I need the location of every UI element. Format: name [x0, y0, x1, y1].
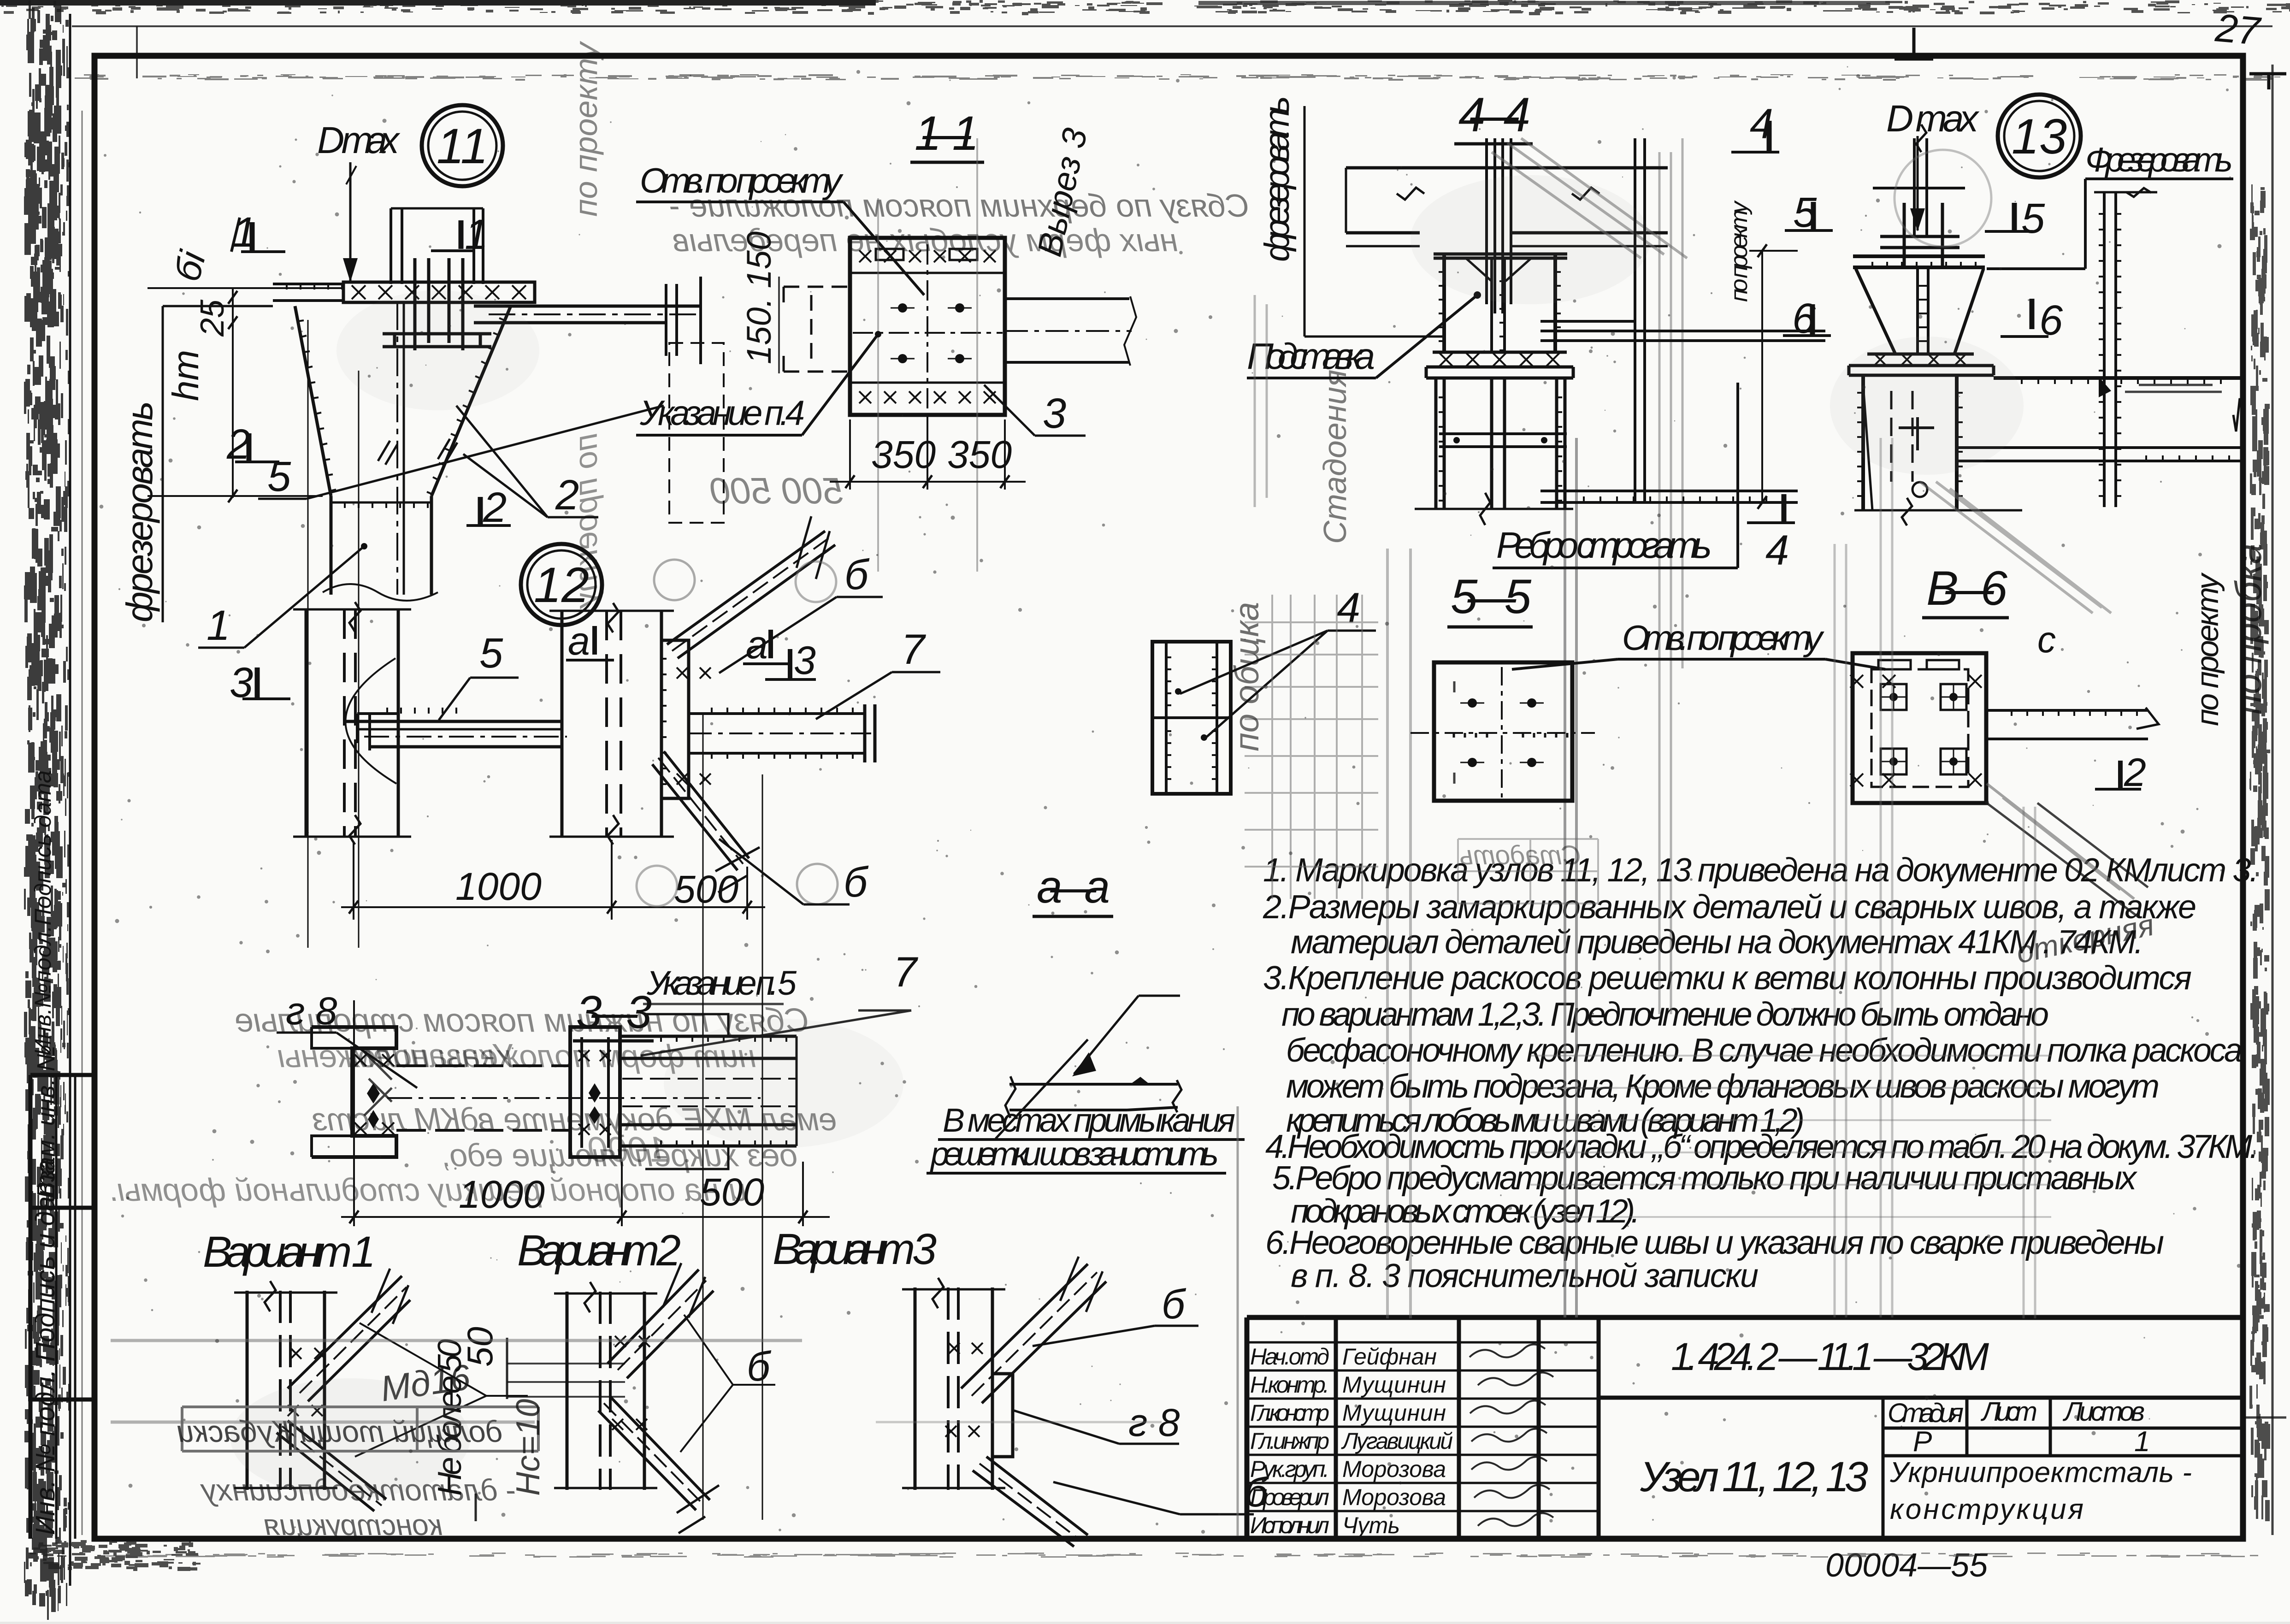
svg-text:350: 350 — [947, 433, 1012, 476]
a-a weld arrow — [1074, 996, 1139, 1074]
scan noise: top edge band — [1, 0, 2290, 15]
svg-text:а: а — [568, 619, 590, 663]
title block right outside tick — [2243, 1417, 2286, 1419]
svg-text:Указанием: Указанием — [351, 1038, 517, 1075]
outer border corner stub — [136, 26, 138, 78]
svg-text:Морозова: Морозова — [1342, 1484, 1446, 1510]
svg-text:00004—55: 00004—55 — [1825, 1547, 1988, 1584]
ghost circles node 12 — [654, 560, 695, 600]
svg-text:2: 2 — [2124, 750, 2146, 795]
node 11: beam end column — [666, 277, 701, 364]
ghost vertical streaks top-middle — [1255, 295, 1267, 507]
variant 2 sketch: leader to b — [680, 1315, 775, 1452]
section B-6: bolts with washers — [1881, 684, 1906, 710]
left margin thin vertical line — [69, 14, 71, 1586]
variant 3 sketch: weld marks — [945, 1343, 983, 1437]
svg-text:б: б — [1162, 1281, 1186, 1328]
node 13: ghost diagonal below — [1920, 482, 2111, 613]
section B-6: inner plate dashed — [1871, 669, 1968, 787]
svg-text:7: 7 — [893, 949, 918, 996]
svg-text:с: с — [2037, 619, 2056, 660]
node 12: lower diagonal brace — [652, 751, 749, 870]
D max arrow — [349, 162, 352, 281]
section mark 2 left — [247, 433, 252, 461]
ghost mirror: 3-3 under line 1 — [312, 1101, 837, 1137]
weld fill — [1130, 1077, 1150, 1084]
ghost arc near circle 13 — [1895, 150, 1991, 247]
ghost vertical extension line center-bottom — [1237, 1106, 1239, 1536]
svg-text:13: 13 — [2012, 108, 2067, 164]
view 4-4: beam to node 13 upper — [1540, 321, 1825, 341]
svg-text:150. 150: 150. 150 — [740, 231, 778, 364]
svg-text:по вариантам 1,2,3. Предпочтен: по вариантам 1,2,3. Предпочтение должно … — [1281, 996, 2049, 1033]
svg-text:конструкция: конструкция — [264, 1508, 443, 1541]
section mark 2 right — [478, 497, 483, 525]
svg-text:1. 424. 2 — 11.1 —32КМ: 1. 424. 2 — 11.1 —32КМ — [1671, 1335, 1989, 1378]
svg-text:1: 1 — [2134, 1426, 2150, 1458]
section 1-1: bracket shapes top — [876, 249, 977, 260]
section mark 4 top (view 4-4) — [1767, 121, 1772, 151]
section 1-1: bolts — [898, 303, 907, 313]
svg-text:Инв. № подл. Подпись и дата: Инв. № подл. Подпись и дата — [30, 1159, 60, 1535]
title block outer box — [1247, 1317, 2243, 1539]
svg-text:6: 6 — [2039, 297, 2063, 344]
svg-text:фрезеровать: фрезеровать — [1257, 96, 1297, 262]
node 11: dashed lower outline — [669, 343, 724, 523]
notes text block — [1263, 852, 2259, 1294]
svg-text:В местах примыкания: В местах примыкания — [943, 1102, 1235, 1139]
section 3-3: left channel — [312, 1027, 396, 1157]
ghost mirror: 1000 dim — [588, 1129, 668, 1169]
svg-text:5: 5 — [1793, 189, 1817, 236]
section 3-3: connecting beam dashes — [396, 1066, 570, 1130]
variant 1 sketch: leader lines — [355, 1323, 528, 1457]
scan noise: right streak band — [2249, 184, 2270, 1521]
svg-text:может быть подрезана, Кроме: может быть подрезана, Кроме фланговых шв… — [1286, 1068, 2160, 1105]
view 4-4: bearing plate hatched — [1433, 352, 1567, 367]
section B-6: cut mark 2 — [2118, 761, 2123, 788]
title block signature rows — [1250, 1344, 1453, 1538]
node 11 dimension lines left — [148, 288, 341, 498]
section mark 1 right of node 11 — [459, 220, 464, 249]
variant 3 sketch: upper diagonal — [961, 1264, 1106, 1403]
node 13: upper column stub — [1873, 138, 1965, 236]
svg-text:Исполнил: Исполнил — [1250, 1512, 1329, 1538]
svg-text:Вариант 1: Вариант 1 — [203, 1228, 376, 1276]
svg-text:Отв. по проекту: Отв. по проекту — [1622, 619, 1824, 658]
svg-text:Гейфнан: Гейфнан — [1342, 1344, 1437, 1370]
svg-text:Стадоения: Стадоения — [1317, 370, 1353, 544]
svg-text:1: 1 — [233, 209, 256, 256]
node 11: column break — [323, 584, 438, 601]
svg-text:Нач.отд: Нач.отд — [1250, 1344, 1329, 1370]
view 4-4: leg stiffener — [1439, 434, 1567, 447]
node 13: right rib wall — [2104, 192, 2116, 507]
view 4-4: right tall column — [1635, 138, 1645, 502]
svg-text:Фрезеровать: Фрезеровать — [2085, 141, 2233, 179]
svg-text:Мущинин: Мущинин — [1342, 1400, 1446, 1426]
svg-text:по общка: по общка — [1228, 602, 1266, 751]
svg-text:6.Неоговоренные сварные швы: 6.Неоговоренные сварные швы и указания п… — [1265, 1224, 2164, 1261]
node 13: beam to right — [1994, 376, 2241, 380]
title block doc number box — [1599, 1396, 2243, 1400]
svg-text:по пробка: по пробка — [2228, 543, 2269, 715]
svg-text:Лист: Лист — [1980, 1397, 2037, 1427]
svg-text:D max: D max — [317, 119, 401, 161]
outer thin border line right — [2272, 65, 2274, 1535]
svg-text:Нс=10: Нс=10 — [510, 1399, 547, 1496]
ghost mirror dim 500 500 — [710, 470, 844, 511]
node 11: washer plate — [383, 334, 491, 347]
node 12: left column — [306, 609, 398, 837]
svg-text:7: 7 — [901, 626, 926, 673]
svg-text:Ребро строгать: Ребро строгать — [1496, 525, 1712, 566]
svg-text:по проекту: по проекту — [1726, 200, 1753, 302]
a-a weld detail plates — [1009, 1084, 1178, 1110]
node 11: beam going right — [474, 306, 701, 323]
node 13: tapered head — [1856, 269, 1983, 354]
section 1-1: center dashes — [927, 244, 928, 410]
svg-text:Инв.№подл.Подпись дата: Инв.№подл.Подпись дата — [30, 770, 56, 1056]
ghost mirror: ukazanie — [351, 1038, 517, 1075]
svg-text:5: 5 — [2021, 195, 2045, 242]
svg-text:по проекту: по проекту — [568, 41, 604, 217]
variant 3 sketch: gusset plate — [992, 1374, 1013, 1457]
variant 1 sketch: weld X marks — [288, 1348, 325, 1416]
svg-text:бесфасоночному креплению. В с: бесфасоночному креплению. В случае необх… — [1286, 1032, 2243, 1069]
section 1-1: ghost mirror text line1 — [669, 188, 1249, 224]
svg-text:500 500: 500 500 — [710, 470, 844, 511]
svg-text:5.Ребро предусматривается тол: 5.Ребро предусматривается только при нал… — [1272, 1160, 2138, 1197]
ghost smudge blobs — [1830, 337, 2024, 475]
title block columns left part — [1336, 1317, 1599, 1539]
variant 3 sketch: lower diagonal — [973, 1457, 1088, 1547]
svg-text:решетки шов зачистить: решетки шов зачистить — [930, 1136, 1219, 1173]
node 12: beam left bracket — [357, 714, 398, 750]
node 11: upper column stub — [391, 208, 483, 284]
node 11: bolt studs — [415, 258, 463, 350]
svg-text:4—4: 4—4 — [1458, 88, 1530, 142]
section mark 6 left — [1810, 304, 1815, 335]
svg-text:1—1: 1—1 — [915, 106, 979, 160]
svg-text:3: 3 — [230, 659, 253, 706]
scan noise: horizontal streak line — [75, 74, 2280, 81]
view 4-4: ghost diagonals — [1492, 138, 1687, 258]
svg-text:Н.контр.: Н.контр. — [1250, 1372, 1329, 1398]
svg-text:1: 1 — [207, 602, 230, 649]
node 11: tapered head — [295, 306, 511, 496]
svg-text:Листов: Листов — [2062, 1397, 2145, 1427]
section 1-1: ghost mirror text line2 — [673, 222, 1178, 258]
ghost rotated text 2 — [568, 433, 604, 609]
node 12: beam to the right with combs — [689, 714, 865, 753]
svg-text:б: б — [844, 551, 870, 598]
svg-text:500: 500 — [674, 868, 738, 911]
title block stage header box — [1883, 1398, 2243, 1539]
svg-text:Вариант 2: Вариант 2 — [517, 1226, 681, 1275]
section B-6: diagonal brace ghost — [1987, 784, 2134, 899]
svg-text:4: 4 — [1750, 100, 1773, 148]
scan noise: bottom thin line — [106, 1553, 2258, 1558]
variant 1 sketch: upper diagonal — [288, 1276, 410, 1401]
svg-text:В —6: В —6 — [1926, 561, 2008, 615]
node 13: top plate — [1853, 256, 1985, 267]
svg-text:11: 11 — [437, 118, 488, 174]
section 1-1: left channel dashes — [784, 287, 850, 372]
svg-text:Узел 11, 12, 13: Узел 11, 12, 13 — [1640, 1453, 1868, 1500]
section 1-1: top X strip — [850, 273, 1005, 383]
section mark 5 left — [1811, 202, 1816, 230]
section mark 1 left of node 11 — [250, 222, 255, 251]
section B-6: plate — [1853, 653, 1986, 803]
svg-text:hт: hт — [165, 350, 206, 401]
node 12: beam between columns — [343, 721, 562, 747]
section 5-5: plate — [1434, 662, 1572, 801]
outer thin border line top — [72, 25, 2272, 27]
ghost mirror: 3-3 area line 2 — [277, 1038, 756, 1074]
section mark 6 right — [2030, 299, 2035, 329]
svg-text:2.Размеры замаркированных д: 2.Размеры замаркированных деталей и свар… — [1263, 889, 2196, 926]
svg-text:Указание п. 5: Указание п. 5 — [646, 964, 797, 1002]
variant 1 sketch: column — [247, 1291, 325, 1490]
svg-text:3: 3 — [1043, 390, 1066, 437]
ghost stadiya table — [1458, 839, 1598, 904]
view 4-4: crossing column — [1487, 138, 1511, 313]
svg-text:5 —5: 5 —5 — [1451, 570, 1532, 624]
section mark 5 right — [2012, 203, 2017, 230]
left stamp column box — [30, 1075, 94, 1539]
variant 3 sketch: column — [915, 1287, 992, 1490]
node 11: thin shelf plate left — [273, 284, 343, 301]
svg-text:2: 2 — [226, 421, 250, 468]
svg-text:фрезеровать: фрезеровать — [119, 401, 160, 622]
svg-text:4: 4 — [1765, 527, 1789, 574]
svg-text:3: 3 — [794, 638, 816, 683]
svg-text:Морозова: Морозова — [1342, 1456, 1446, 1482]
svg-text:Стадия: Стадия — [1888, 1398, 1964, 1428]
ghost column band center — [1387, 549, 1411, 1318]
node 12: end plate — [865, 704, 875, 762]
view 4-4: lower beam lines — [1540, 491, 1798, 502]
svg-text:27: 27 — [2213, 6, 2263, 53]
svg-text:1: 1 — [465, 211, 488, 258]
svg-text:6: 6 — [1792, 295, 1816, 342]
leader from weld note to detail — [996, 1039, 1088, 1139]
svg-text:б: б — [747, 1344, 772, 1390]
node 13: bearing plate hatched — [1867, 354, 1974, 366]
svg-text:Мущинин: Мущинин — [1342, 1372, 1446, 1398]
node 11: column shaft — [331, 496, 431, 595]
ghost horizontal lines (variants zone) — [111, 1339, 802, 1342]
svg-text:1000: 1000 — [588, 1129, 668, 1169]
svg-text:2: 2 — [483, 484, 507, 531]
node 12: upper diagonal brace — [667, 531, 835, 658]
label 3 cut mark (node 12) — [788, 649, 792, 679]
svg-text:Р: Р — [1913, 1426, 1932, 1458]
svg-text:Укрниипроектсталь -: Укрниипроектсталь - — [1889, 1457, 2192, 1488]
detail: twin channel section (label 4) — [1152, 642, 1231, 794]
ghost grid right-center — [1530, 1056, 2051, 1217]
ghost stamp grid bottom-left — [177, 1407, 538, 1541]
svg-text:б: б — [1245, 1470, 1269, 1516]
signature squiggles — [1470, 1344, 1553, 1526]
node 13: inner dashed web — [1891, 391, 1912, 482]
variant 2 sketch: weld marks — [612, 1336, 650, 1430]
node 12: right column — [562, 611, 661, 837]
svg-text:в п. 8. 3 пояснительной запи: в п. 8. 3 пояснительной записки — [1291, 1258, 1759, 1294]
view 4-4: support stand upper box — [1444, 254, 1555, 354]
section 1-1: plate outline — [850, 238, 1005, 415]
svg-text:5: 5 — [267, 453, 291, 500]
node 12: gusset plate — [661, 640, 689, 798]
svg-text:Вариант 3: Вариант 3 — [773, 1225, 937, 1274]
view 4-4: top beam — [1346, 168, 1668, 233]
svg-text:350: 350 — [871, 433, 936, 476]
svg-text:4: 4 — [1337, 585, 1360, 632]
view 4-4: stand bottom line — [1415, 508, 1573, 510]
node circle 11 — [422, 105, 503, 186]
ghost vertical band pairs across notes — [1835, 438, 2035, 1318]
scan noise: bottom left blob — [30, 1540, 201, 1571]
svg-text:Отв. по проекту: Отв. по проекту — [640, 161, 844, 201]
corner tick marks — [1895, 28, 1933, 60]
ghost mirror: 3-3 area line 1 — [235, 1002, 809, 1039]
svg-text:Стадоть: Стадоть — [1459, 840, 1581, 870]
svg-text:3.Крепление раскосов решетки: 3.Крепление раскосов решетки к ветви кол… — [1263, 960, 2192, 997]
ghost rotated po proektu left — [568, 41, 604, 217]
svg-text:б: б — [844, 859, 869, 906]
section B-6: bracket shapes — [1878, 660, 1959, 669]
section 3-3: middle channel — [570, 1027, 620, 1157]
svg-text:по проекту: по проекту — [568, 433, 604, 609]
section mark 4 bottom — [1782, 494, 1787, 522]
svg-text:Указание п.4: Указание п.4 — [639, 394, 805, 433]
svg-text:1000: 1000 — [455, 865, 542, 908]
section mark 3 (node 12) — [255, 667, 260, 698]
node 13: column below — [1863, 375, 1957, 510]
ghost mirror: 3-3 under line 2 — [441, 1137, 797, 1173]
ghost mirror: 3-3 under line 3 — [108, 1172, 747, 1208]
svg-text:а — а: а — а — [1037, 861, 1110, 913]
variant 1 sketch: lower diagonal — [277, 1421, 386, 1511]
section B-6: beam right — [1986, 710, 2148, 739]
svg-text:25: 25 — [194, 299, 231, 337]
variant 2 sketch: lower diagonal — [598, 1397, 710, 1510]
svg-text:и на опорной решкиу стодильной: и на опорной решкиу стодильной формы. — [108, 1172, 747, 1208]
view 4-4: stand legs — [1436, 378, 1565, 509]
svg-text:Гл.инжпр: Гл.инжпр — [1250, 1428, 1329, 1454]
svg-text:D max: D max — [1886, 98, 1980, 140]
svg-text:Лугавицкий: Лугавицкий — [1341, 1428, 1453, 1454]
variant 2 sketch: column — [567, 1292, 644, 1490]
section 1-1: right beam — [1005, 299, 1129, 362]
svg-text:Гл.констр: Гл.констр — [1250, 1400, 1329, 1426]
scan noise: left dark streak band — [24, 0, 71, 1620]
section 3-3: right plate assembly — [620, 1036, 797, 1146]
node 12: big arc leader — [345, 658, 396, 784]
svg-text:конструкция: конструкция — [1890, 1494, 2083, 1525]
svg-text:по проекту: по проекту — [2190, 572, 2225, 726]
svg-text:5: 5 — [479, 630, 503, 677]
node circle 12 — [521, 544, 602, 625]
ghost grid band — [1245, 595, 1378, 899]
node circle 13 — [1998, 94, 2081, 177]
section 1-1: vertical grid faint — [878, 138, 977, 572]
variant 2 sketch: upper diagonal — [608, 1270, 714, 1378]
node 11: top plate hatched — [343, 282, 535, 302]
node 13: washer plates — [1880, 236, 1959, 248]
node 11: head centerlines — [396, 302, 398, 595]
node 11: weld marks in head — [378, 439, 457, 465]
svg-text:Взам. инв. №: Взам. инв. № — [32, 1045, 60, 1199]
title block rows left part — [1247, 1342, 1599, 1511]
